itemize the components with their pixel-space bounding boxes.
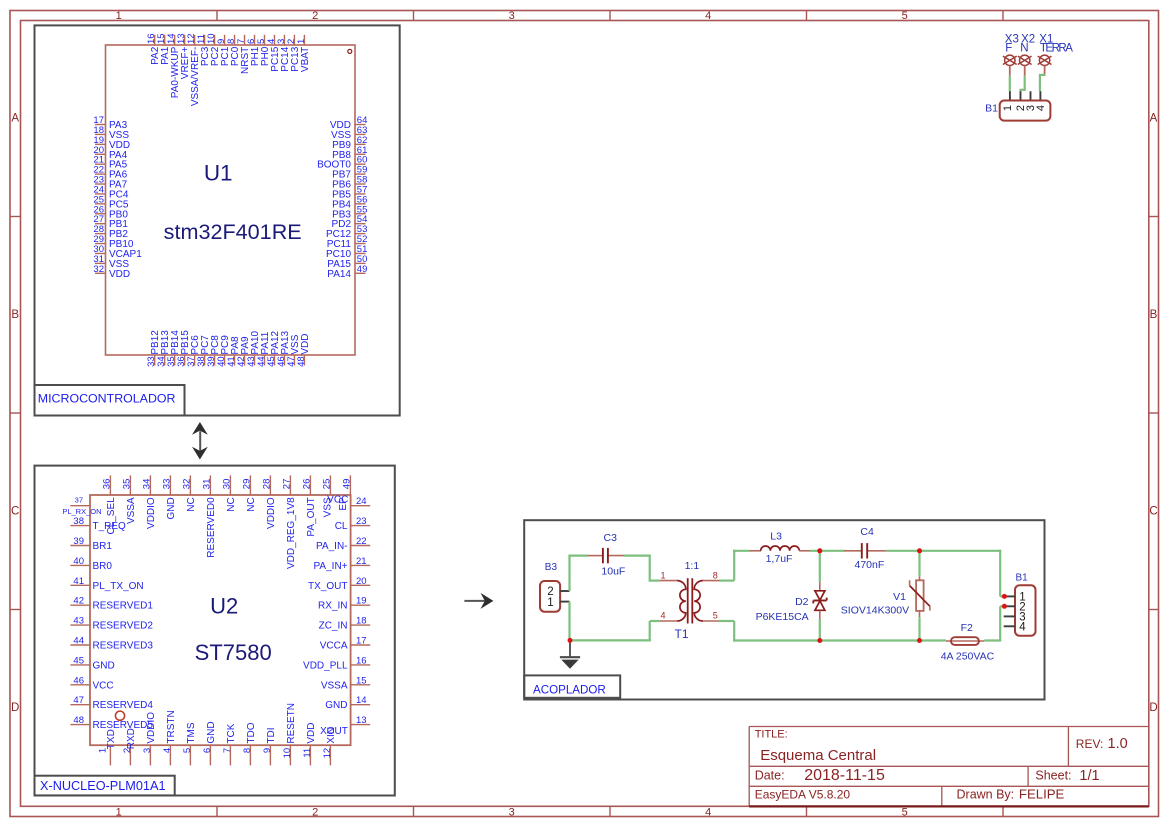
svg-text:VCC: VCC	[93, 680, 114, 691]
svg-text:1: 1	[116, 806, 122, 818]
svg-text:14: 14	[356, 695, 367, 706]
svg-text:NC: NC	[226, 497, 237, 511]
svg-text:VBAT: VBAT	[300, 47, 311, 72]
svg-text:38: 38	[73, 516, 84, 527]
svg-text:6: 6	[202, 748, 213, 753]
svg-text:T1: T1	[675, 627, 689, 641]
svg-text:3: 3	[509, 10, 515, 22]
svg-text:47: 47	[73, 695, 84, 706]
svg-text:BR0: BR0	[93, 561, 113, 572]
svg-text:7: 7	[222, 748, 233, 753]
svg-text:25: 25	[321, 479, 332, 490]
svg-text:48: 48	[73, 715, 84, 726]
svg-text:TXD: TXD	[106, 729, 117, 749]
svg-text:4A 250VAC: 4A 250VAC	[941, 651, 995, 663]
svg-text:D: D	[11, 702, 19, 714]
svg-text:MICROCONTROLADOR: MICROCONTROLADOR	[38, 392, 176, 406]
svg-text:4: 4	[660, 610, 665, 620]
svg-text:1: 1	[660, 570, 665, 580]
svg-text:43: 43	[73, 616, 84, 627]
svg-text:5: 5	[902, 806, 908, 818]
svg-text:RESERVED3: RESERVED3	[93, 641, 154, 652]
svg-text:U2: U2	[210, 594, 238, 619]
svg-text:3: 3	[142, 748, 153, 753]
svg-text:26: 26	[301, 479, 312, 490]
svg-text:23: 23	[356, 516, 367, 527]
svg-text:46: 46	[73, 675, 84, 686]
svg-text:RESERVED0: RESERVED0	[206, 497, 217, 558]
svg-text:TDO: TDO	[246, 722, 257, 743]
svg-text:24: 24	[356, 496, 367, 507]
svg-text:CL_SEL: CL_SEL	[106, 497, 117, 535]
svg-text:Sheet:: Sheet:	[1035, 769, 1071, 783]
svg-text:33: 33	[161, 479, 172, 490]
svg-text:3: 3	[509, 806, 515, 818]
svg-text:470nF: 470nF	[855, 559, 885, 571]
svg-text:1.0: 1.0	[1108, 736, 1128, 752]
svg-text:V1: V1	[893, 591, 906, 603]
svg-text:VDDIO: VDDIO	[146, 712, 157, 744]
svg-text:L3: L3	[770, 531, 782, 543]
svg-text:48: 48	[296, 356, 307, 367]
svg-text:1:1: 1:1	[685, 560, 700, 572]
svg-text:40: 40	[73, 556, 84, 567]
svg-text:VCCA: VCCA	[320, 641, 348, 652]
svg-text:GND: GND	[166, 497, 177, 519]
svg-text:16: 16	[356, 655, 367, 666]
svg-text:4: 4	[705, 806, 711, 818]
svg-text:D: D	[1149, 702, 1157, 714]
svg-text:PL_RX_ON: PL_RX_ON	[62, 507, 101, 516]
svg-text:C4: C4	[860, 526, 874, 538]
svg-text:PA_OUT: PA_OUT	[306, 497, 317, 536]
svg-text:RESERVED1: RESERVED1	[93, 601, 154, 612]
svg-text:X-NUCLEO-PLM01A1: X-NUCLEO-PLM01A1	[40, 779, 166, 793]
svg-text:36: 36	[101, 479, 112, 490]
svg-text:TERRA: TERRA	[1040, 42, 1073, 54]
svg-text:RESETN: RESETN	[286, 703, 297, 744]
svg-text:34: 34	[141, 479, 152, 490]
svg-text:B3: B3	[545, 562, 558, 573]
svg-text:4: 4	[1035, 105, 1047, 111]
svg-text:A: A	[1150, 113, 1158, 125]
svg-text:RESERVED5: RESERVED5	[93, 720, 154, 731]
svg-text:20: 20	[356, 576, 367, 587]
svg-text:VDDIO: VDDIO	[146, 497, 157, 529]
svg-text:VSS: VSS	[322, 497, 333, 517]
svg-text:10uF: 10uF	[601, 566, 625, 578]
svg-text:15: 15	[356, 675, 367, 686]
svg-text:39: 39	[73, 536, 84, 547]
svg-text:11: 11	[302, 748, 313, 758]
svg-text:B: B	[11, 309, 19, 321]
svg-text:EasyEDA V5.8.20: EasyEDA V5.8.20	[755, 788, 851, 802]
svg-text:32: 32	[93, 264, 104, 275]
svg-text:27: 27	[281, 479, 292, 490]
svg-text:VDD: VDD	[300, 333, 311, 354]
svg-text:4: 4	[1019, 621, 1026, 633]
svg-text:C3: C3	[604, 532, 618, 544]
svg-text:VDD: VDD	[306, 722, 317, 743]
svg-text:RESERVED4: RESERVED4	[93, 700, 154, 711]
svg-text:XIN: XIN	[326, 727, 337, 744]
svg-text:VSSA: VSSA	[126, 497, 137, 524]
svg-text:Drawn By:: Drawn By:	[957, 788, 1015, 802]
svg-text:9: 9	[262, 748, 273, 753]
svg-text:Esquema Central: Esquema Central	[760, 747, 876, 764]
svg-text:TITLE:: TITLE:	[755, 729, 788, 741]
svg-text:ACOPLADOR: ACOPLADOR	[533, 683, 606, 696]
svg-text:1: 1	[1002, 105, 1014, 111]
svg-text:28: 28	[261, 479, 272, 490]
svg-text:FELIPE: FELIPE	[1019, 787, 1065, 802]
svg-text:B: B	[1150, 309, 1158, 321]
svg-text:30: 30	[221, 479, 232, 490]
svg-text:21: 21	[356, 556, 367, 567]
svg-text:2: 2	[312, 806, 318, 818]
svg-text:1,7uF: 1,7uF	[766, 553, 793, 565]
svg-text:37: 37	[75, 496, 83, 505]
svg-text:F2: F2	[961, 622, 973, 634]
svg-text:10: 10	[282, 748, 293, 759]
svg-text:32: 32	[181, 479, 192, 490]
svg-text:4: 4	[705, 10, 711, 22]
svg-text:B1: B1	[1016, 572, 1029, 583]
svg-text:PA14: PA14	[327, 269, 351, 280]
svg-text:29: 29	[241, 479, 252, 490]
svg-text:RXD: RXD	[126, 728, 137, 749]
svg-text:PA_IN+: PA_IN+	[314, 561, 348, 572]
svg-text:1: 1	[296, 39, 307, 44]
svg-text:REV:: REV:	[1076, 737, 1104, 751]
svg-text:U1: U1	[204, 161, 233, 186]
svg-text:TRSTN: TRSTN	[166, 710, 177, 743]
svg-text:PL_TX_ON: PL_TX_ON	[93, 581, 144, 592]
svg-text:D2: D2	[795, 596, 809, 608]
svg-text:1: 1	[547, 597, 553, 609]
svg-text:1/1: 1/1	[1079, 768, 1099, 784]
svg-text:CL: CL	[335, 521, 348, 532]
svg-text:GND: GND	[206, 721, 217, 743]
svg-text:Date:: Date:	[755, 769, 785, 783]
svg-text:12: 12	[322, 748, 333, 759]
svg-text:TX_OUT: TX_OUT	[308, 581, 347, 592]
svg-text:ZC_IN: ZC_IN	[319, 621, 348, 632]
svg-text:TMS: TMS	[186, 722, 197, 743]
svg-text:22: 22	[356, 536, 367, 547]
svg-text:31: 31	[201, 479, 212, 490]
svg-text:TCK: TCK	[226, 723, 237, 743]
svg-text:VDDIO: VDDIO	[266, 497, 277, 529]
svg-text:19: 19	[356, 596, 367, 607]
svg-text:BR1: BR1	[93, 541, 113, 552]
svg-text:C: C	[11, 506, 19, 518]
svg-text:5: 5	[182, 748, 193, 753]
svg-text:VDD_REG_1V8: VDD_REG_1V8	[286, 497, 297, 569]
svg-text:45: 45	[73, 655, 84, 666]
svg-text:49: 49	[341, 479, 352, 490]
svg-text:TDI: TDI	[266, 727, 277, 743]
svg-text:NC: NC	[246, 497, 257, 511]
svg-text:17: 17	[356, 636, 367, 647]
svg-text:VDD: VDD	[109, 269, 130, 280]
svg-text:NC: NC	[186, 497, 197, 511]
svg-text:GND: GND	[93, 660, 115, 671]
svg-text:GND: GND	[325, 700, 347, 711]
svg-text:5: 5	[902, 10, 908, 22]
svg-text:PA_IN-: PA_IN-	[316, 541, 348, 552]
svg-text:35: 35	[121, 479, 132, 490]
svg-text:stm32F401RE: stm32F401RE	[164, 219, 302, 244]
svg-text:13: 13	[356, 715, 367, 726]
svg-text:RESERVED2: RESERVED2	[93, 621, 154, 632]
svg-text:42: 42	[73, 596, 84, 607]
svg-text:1: 1	[116, 10, 122, 22]
svg-text:ST7580: ST7580	[195, 640, 272, 665]
svg-text:44: 44	[73, 636, 84, 647]
svg-text:8: 8	[242, 748, 253, 753]
svg-text:P6KE15CA: P6KE15CA	[756, 611, 809, 623]
svg-text:A: A	[11, 113, 19, 125]
svg-text:2018-11-15: 2018-11-15	[804, 767, 885, 784]
svg-text:41: 41	[73, 576, 84, 587]
svg-text:49: 49	[357, 264, 368, 275]
svg-text:4: 4	[162, 748, 173, 753]
svg-text:8: 8	[713, 570, 718, 580]
svg-text:VDD_PLL: VDD_PLL	[303, 660, 348, 671]
svg-text:RX_IN: RX_IN	[318, 601, 347, 612]
svg-text:SIOV14K300V: SIOV14K300V	[841, 605, 909, 617]
svg-text:EP: EP	[338, 497, 349, 511]
svg-text:N: N	[1020, 42, 1028, 54]
svg-text:B1: B1	[985, 103, 998, 115]
svg-text:F: F	[1005, 42, 1012, 54]
svg-text:2: 2	[312, 10, 318, 22]
svg-text:VSSA: VSSA	[321, 680, 348, 691]
svg-text:C: C	[1149, 506, 1157, 518]
svg-text:5: 5	[713, 610, 718, 620]
svg-text:18: 18	[356, 616, 367, 627]
